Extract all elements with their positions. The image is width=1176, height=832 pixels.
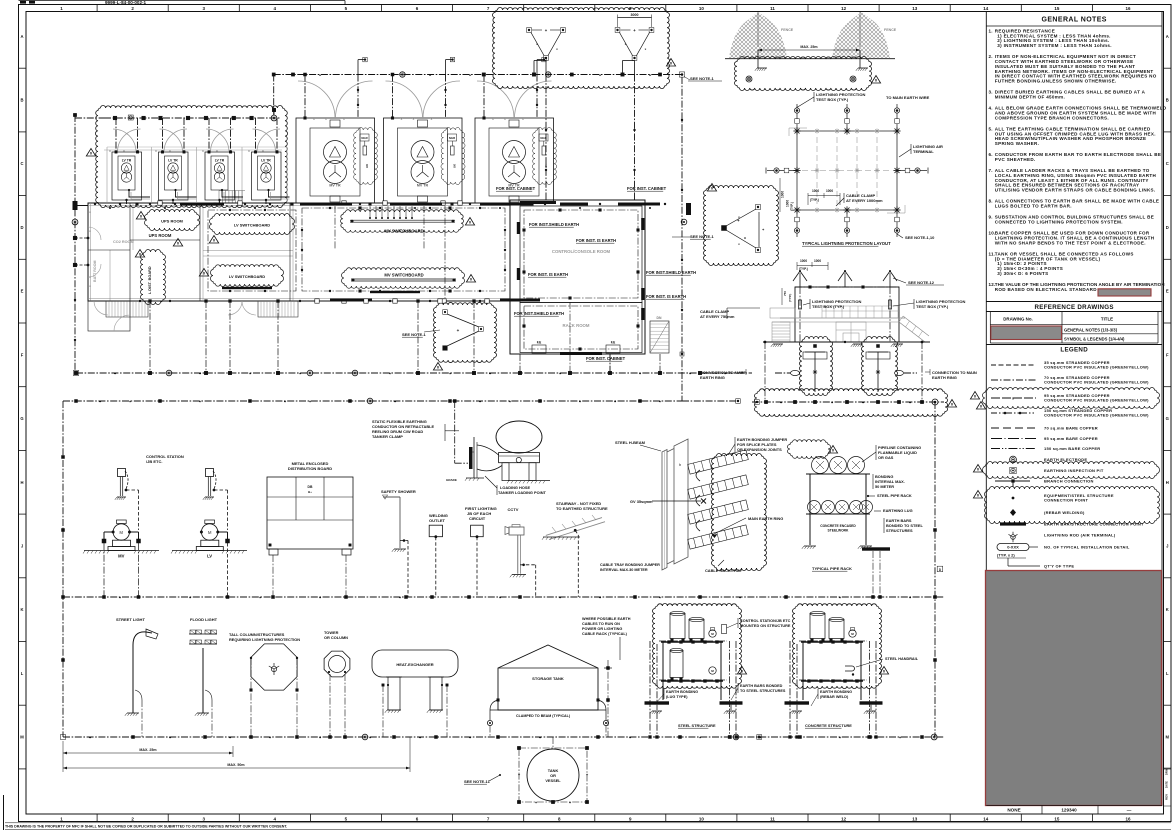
control building outline (510, 200, 645, 354)
svg-text:K: K (20, 607, 23, 612)
svg-text:G: G (1166, 416, 1169, 421)
wall connection dots top (94, 203, 96, 205)
elevation mid platform (780, 317, 905, 319)
structure vessel mid (670, 651, 683, 678)
svg-text:x: x (262, 149, 264, 153)
svg-text:NGR: NGR (449, 136, 455, 140)
svg-text:OR EXPANSION JOINTS: OR EXPANSION JOINTS (737, 447, 782, 452)
legend 70sqmm line (991, 379, 1036, 381)
structure down conductors (649, 641, 651, 737)
svg-text:13: 13 (912, 6, 918, 11)
svg-text:TYPICAL LIGHTNING PROTECTION L: TYPICAL LIGHTNING PROTECTION LAYOUT (802, 241, 891, 246)
svg-text:CONCRETE ENCASED: CONCRETE ENCASED (820, 524, 856, 528)
pipe rack upper tier (806, 473, 870, 475)
svg-text:E: E (1166, 289, 1169, 294)
lv bay cable hook (222, 190, 243, 197)
svg-text:FOR INST. CABINET: FOR INST. CABINET (496, 186, 536, 191)
tanker tank ellipse (496, 421, 542, 453)
structure posts (802, 642, 804, 700)
left riser earth bar (73, 201, 78, 210)
elevation footing cloud (800, 336, 833, 395)
svg-text:TEST BOX (TYP.): TEST BOX (TYP.) (812, 304, 845, 309)
fence earth cloud (735, 56, 872, 90)
upper earth ring above mv bays (274, 74, 682, 76)
svg-text:UPS ROOM: UPS ROOM (149, 233, 172, 238)
structure vessels top (810, 614, 825, 639)
svg-text:REV: REV (1165, 794, 1169, 800)
svg-text:H: H (20, 480, 23, 485)
svg-text:F.E: F.E (537, 341, 542, 345)
svg-text:TEST BOX (TYP.): TEST BOX (TYP.) (816, 97, 849, 102)
test box drop hook (634, 61, 636, 75)
svg-text:CIRCUIT: CIRCUIT (469, 516, 486, 521)
svg-text:F.E: F.E (611, 341, 616, 345)
svg-text:TERMINAL: TERMINAL (913, 149, 934, 154)
svg-text:EARTH BAR/STRUCTURE CONNECTION: EARTH BAR/STRUCTURE CONNECTION POINT (1044, 522, 1144, 527)
reference drawings header (986, 301, 1162, 303)
see note-1 cloud lower (434, 302, 497, 362)
legend equipment/steel structure connection point (985, 487, 1160, 524)
svg-text:1000: 1000 (814, 259, 821, 263)
top ruler band (96, 5, 98, 12)
svg-text:DATE: DATE (1165, 781, 1169, 788)
ngr earth jog (536, 60, 538, 75)
svg-text:CONCRETE STRUCTURE: CONCRETE STRUCTURE (805, 723, 852, 728)
svg-text:CONNECTION POINT: CONNECTION POINT (1044, 498, 1089, 503)
mv motor (117, 520, 127, 524)
structure cloud (653, 603, 742, 688)
rack room instrument earth loop (524, 306, 638, 349)
svg-text:REQUIRING LIGHTNING PROTECTION: REQUIRING LIGHTNING PROTECTION (229, 637, 300, 642)
svg-text:K: K (1166, 607, 1169, 612)
svg-text:TEST BOX (TYP.): TEST BOX (TYP.) (916, 304, 949, 309)
svg-text:CLAMPED TO BEAM (TYPICAL): CLAMPED TO BEAM (TYPICAL) (516, 714, 571, 718)
svg-text:x: x (123, 149, 125, 153)
svg-text:GRADE: GRADE (446, 478, 457, 482)
svg-text:QT'Y OF TYPE: QT'Y OF TYPE (1044, 564, 1074, 569)
general notes title (986, 25, 1162, 27)
legend earth electrode (1010, 456, 1017, 463)
svg-text:HEAT-EXCHANGER: HEAT-EXCHANGER (396, 662, 433, 667)
bottom ring cloud under elevation (755, 388, 948, 416)
svg-text:750: 750 (783, 291, 787, 296)
svg-text:TANKER LOADING POINT: TANKER LOADING POINT (498, 490, 547, 495)
svg-text:MINIMUM DEPTH OF 450mm.: MINIMUM DEPTH OF 450mm. (995, 94, 1065, 99)
svg-text:RACK ROOM: RACK ROOM (563, 323, 590, 328)
svg-text:REFERENCE DRAWINGS: REFERENCE DRAWINGS (1035, 304, 1114, 311)
svg-text:3) 30m< D: 6 POINTS: 3) 30m< D: 6 POINTS (997, 271, 1048, 276)
grid air terminals (793, 130, 800, 132)
svg-text:EARTHING LUG: EARTHING LUG (883, 508, 913, 513)
svg-text:MAIN EARTH RING: MAIN EARTH RING (748, 516, 783, 521)
lv bay cable hook (269, 190, 290, 197)
pipe rack earth bar (862, 547, 890, 550)
svg-text:11: 11 (770, 816, 775, 821)
storage tank (498, 645, 598, 710)
svg-text:CABLE RACK/TRAY: CABLE RACK/TRAY (705, 568, 742, 573)
lv bay cable hook (129, 190, 150, 197)
svg-text:CONDUCTOR PVC INSULATED (GREEN: CONDUCTOR PVC INSULATED (GREEN/YELLOW) (1044, 398, 1149, 403)
top-left drawing number box (19, 0, 346, 2)
svg-text:x: x (155, 149, 157, 153)
svg-text:MV TR: MV TR (329, 184, 341, 188)
svg-text:CONDUCTOR PVC INSULATED (GREEN: CONDUCTOR PVC INSULATED (GREEN/YELLOW) (1044, 365, 1149, 370)
left door arcs (88, 227, 101, 240)
svg-text:STEELWORK: STEELWORK (828, 529, 849, 533)
svg-text:x: x (1012, 397, 1014, 401)
svg-text:16: 16 (1125, 6, 1131, 11)
structure vessels top (670, 614, 685, 639)
middle band ring bottom y597 (63, 596, 944, 598)
svg-text:M: M (1166, 735, 1170, 740)
svg-text:CCTV: CCTV (508, 507, 519, 512)
legend 70sqmm bare copper (991, 427, 1036, 429)
svg-text:0-XXX: 0-XXX (1007, 545, 1019, 550)
svg-text:TYPICAL PIPE RACK: TYPICAL PIPE RACK (812, 566, 852, 571)
svg-text:A: A (1166, 34, 1169, 39)
storage tank clamps (490, 700, 498, 710)
svg-text:h: h (679, 463, 681, 467)
svg-text:(TYP.): (TYP.) (788, 294, 792, 302)
structure motor top (709, 630, 716, 637)
bottom property note (5, 822, 1171, 824)
svg-text:CONTROL/CONSOLE ROOM: CONTROL/CONSOLE ROOM (552, 249, 611, 254)
legend 150sqmm line (991, 412, 1036, 414)
svg-text:A: A (20, 34, 23, 39)
lv room earth loop (208, 210, 296, 291)
legend earthing inspection pit (983, 461, 1160, 478)
structure footings (645, 701, 670, 704)
svg-text:CABLE RACK (TYPICAL): CABLE RACK (TYPICAL) (582, 632, 628, 636)
lv motor (205, 520, 215, 524)
svg-text:MV SWITCHBOARD: MV SWITCHBOARD (384, 229, 423, 234)
svg-text:EARTH RING: EARTH RING (700, 375, 725, 380)
svg-text:STORAGE TANK: STORAGE TANK (532, 676, 564, 681)
svg-text:FOR INST. CABINET: FOR INST. CABINET (586, 356, 626, 361)
svg-text:1000: 1000 (800, 259, 807, 263)
lv transformer yard cloud (95, 105, 287, 207)
tanker chassis (499, 453, 540, 463)
svg-text:MAX. 50m: MAX. 50m (227, 763, 244, 767)
ngr earth jog (445, 60, 447, 75)
elevation test boxes (799, 300, 802, 309)
svg-text:EARTHING INSPECTION PIT: EARTHING INSPECTION PIT (1044, 468, 1104, 473)
reference drawings redacted cell (991, 326, 1062, 340)
elevation right handrail (899, 322, 925, 342)
mv motor earth hooks (112, 531, 115, 534)
legend 95sqmm line with cloud (983, 387, 1160, 408)
svg-text:x: x (492, 117, 494, 121)
svg-text:FLOOD LIGHT: FLOOD LIGHT (190, 617, 218, 622)
tanker ground (508, 480, 550, 482)
left vertical ring x63 (62, 401, 64, 737)
svg-text:FOR INST. IS EARTH: FOR INST. IS EARTH (576, 238, 616, 243)
structure down conductors (789, 641, 791, 737)
svg-text:LV TR: LV TR (168, 159, 178, 163)
right vertical ring x935 (934, 402, 936, 737)
tanker riser from ring (454, 401, 456, 463)
svg-text:DN: DN (657, 316, 662, 320)
lv cable risers to switchboard (369, 206, 371, 218)
svg-text:LV SWITCHBOARD: LV SWITCHBOARD (234, 223, 270, 228)
svg-text:x: x (248, 149, 250, 153)
svg-text:15: 15 (1054, 816, 1060, 821)
svg-text:CONDUCTOR PVC INSULATED (GREEN: CONDUCTOR PVC INSULATED (GREEN/YELLOW) (1044, 413, 1149, 418)
wall column markers (315, 299, 319, 303)
svg-text:(TYP.): (TYP.) (790, 202, 794, 211)
steel handrail symbol (845, 666, 855, 671)
control/console room (520, 206, 642, 303)
svg-text:STEEL HANDRAIL: STEEL HANDRAIL (885, 657, 919, 661)
tanker loading hoses (477, 445, 499, 455)
test box drop hook (545, 61, 547, 75)
svg-text:11: 11 (770, 6, 775, 11)
wall connection squares row (136, 203, 139, 206)
svg-text:GENERAL NOTES: GENERAL NOTES (1042, 17, 1107, 24)
svg-text:129340: 129340 (1061, 808, 1077, 813)
svg-text:(TYP. x 2): (TYP. x 2) (997, 553, 1015, 558)
structure motor mid (709, 667, 716, 674)
svg-text:OR GAS: OR GAS (878, 455, 894, 460)
legend earth bar connection point (1000, 522, 1026, 525)
svg-text:12: 12 (841, 816, 847, 821)
svg-text:4.: 4. (989, 106, 993, 111)
svg-text:POWER OR LIGHTING: POWER OR LIGHTING (582, 627, 622, 631)
svg-text:2.: 2. (989, 54, 993, 59)
svg-text:1.: 1. (989, 29, 993, 34)
svg-text:LV TR: LV TR (261, 159, 271, 163)
svg-text:x: x (343, 117, 345, 121)
tanker legs (502, 463, 509, 481)
inside verticals from mv bays to switchboards (334, 206, 336, 250)
control building F.E boxes (532, 345, 546, 353)
svg-text:LIGHTNING ROD (AIR TERMINAL): LIGHTNING ROD (AIR TERMINAL) (1044, 533, 1116, 538)
svg-text:SPRING WASHER.: SPRING WASHER. (995, 141, 1039, 146)
legend rebar welding diamond (1010, 509, 1016, 516)
cable rack trays (688, 450, 749, 474)
svg-text:GV 35sqmm: GV 35sqmm (630, 499, 653, 504)
svg-text:8.: 8. (989, 199, 993, 204)
lv motor earth hooks (200, 531, 203, 534)
svg-text:/JB ETC.: /JB ETC. (146, 459, 162, 464)
svg-text:1000: 1000 (786, 200, 790, 207)
substation entrance (88, 301, 130, 331)
legend branch connection (995, 480, 1030, 482)
svg-text:(TYP.): (TYP.) (810, 198, 819, 202)
test box dimension 3000 (618, 17, 652, 19)
svg-text:CONTROL STATION/JB ETC: CONTROL STATION/JB ETC (740, 619, 791, 623)
svg-text:15: 15 (1054, 6, 1060, 11)
svg-text:EARTH BONDING: EARTH BONDING (820, 690, 852, 694)
legend 150sqmm bare copper (991, 448, 1036, 450)
structure motor top (849, 630, 856, 637)
triangles right of middle band (973, 465, 982, 473)
right vertical earth riser x682 (681, 77, 683, 401)
substation building outline (88, 203, 510, 301)
svg-text:CABLES TO RUN ON: CABLES TO RUN ON (582, 622, 620, 626)
heat exchanger (372, 650, 458, 677)
mv motor ground line (84, 550, 159, 552)
svg-text:FOR INST. IS EARTH: FOR INST. IS EARTH (646, 294, 686, 299)
svg-text:3000: 3000 (631, 13, 639, 17)
structure beams (661, 641, 723, 643)
small cloud by jumper label (788, 439, 831, 458)
mv switchboard cloud 1 (340, 209, 463, 232)
svg-text:STRUCTURES: STRUCTURES (886, 528, 913, 533)
svg-text:10: 10 (699, 6, 705, 11)
lv transformer bays (112, 152, 142, 200)
mv room earth loop (302, 208, 505, 291)
elevation left stair (770, 308, 795, 318)
svg-text:GENERAL NOTES (1/3-3/3): GENERAL NOTES (1/3-3/3) (1064, 328, 1118, 333)
svg-text:B: B (1166, 98, 1169, 103)
svg-text:x: x (109, 149, 111, 153)
grid terminal connections sides (789, 170, 797, 172)
svg-text:TO STEEL STRUCTURES: TO STEEL STRUCTURES (740, 689, 786, 693)
svg-text:DRW: DRW (1165, 768, 1169, 775)
svg-text:SEE NOTE-1: SEE NOTE-1 (690, 76, 715, 81)
lv yard cable fan (218, 191, 220, 203)
svg-text:H: H (1166, 480, 1169, 485)
extra wall column markers (342, 201, 346, 205)
structure posts (662, 642, 664, 700)
legend header (986, 344, 1162, 346)
lightning protection test box cloud top (492, 7, 669, 88)
svg-text:5.: 5. (989, 126, 993, 131)
svg-text:MV TR: MV TR (417, 184, 429, 188)
structure cloud (793, 603, 882, 688)
svg-text:LV SWITCHBOARD: LV SWITCHBOARD (229, 274, 265, 279)
svg-text:BRANCH CONNECTION: BRANCH CONNECTION (1044, 479, 1094, 484)
svg-text:L DIST. BOARD: L DIST. BOARD (148, 266, 152, 294)
svg-text:3.: 3. (989, 90, 993, 95)
svg-text:13: 13 (912, 816, 918, 821)
svg-text:FOR INST. IS EARTH: FOR INST. IS EARTH (528, 272, 568, 277)
svg-text:14: 14 (983, 816, 989, 821)
svg-text:EARTH RING: EARTH RING (932, 375, 957, 380)
svg-text:SEE NOTE-1,10: SEE NOTE-1,10 (905, 235, 935, 240)
ring y737 extra nodes structures (649, 736, 652, 739)
elevation roof ring (795, 286, 899, 288)
svg-text:WITH NO SHARP BENDS TO THE TES: WITH NO SHARP BENDS TO THE TEST POINT & … (995, 240, 1146, 245)
busbars along walls various (330, 299, 372, 302)
bottom ring line under elevation (752, 401, 944, 403)
lv yard earth ring (104, 117, 281, 119)
svg-text:LEGEND: LEGEND (1060, 347, 1088, 354)
svg-text:VESSEL: VESSEL (545, 778, 561, 783)
pipe rack posts (809, 474, 811, 545)
dim max 25m bottom (63, 752, 233, 754)
cable rack cloud (712, 454, 767, 571)
elevation railing (825, 306, 827, 318)
svg-text:INTERVAL MAX.30 METER: INTERVAL MAX.30 METER (600, 568, 648, 572)
lv yard bay partitions (106, 147, 108, 202)
svg-text:FENCE: FENCE (781, 28, 794, 32)
grid terminal connections bottom (796, 210, 798, 217)
note 12 highlighted box (1098, 289, 1151, 296)
control room instrument earth loop (524, 210, 638, 298)
svg-text:ROD BASED ON ELECTRICAL STANDA: ROD BASED ON ELECTRICAL STANDARD (995, 287, 1097, 292)
svg-text:C: C (1166, 161, 1169, 166)
elevation lightning masts (799, 273, 801, 287)
substation interior walls (129, 203, 131, 301)
legend 95sqmm bare copper (991, 438, 1036, 440)
svg-text:70 sq.mm BARE COPPER: 70 sq.mm BARE COPPER (1044, 426, 1098, 431)
svg-text:AT EVERY 1000mm: AT EVERY 1000mm (846, 198, 883, 203)
lv switchboard cloud 2 (211, 264, 284, 286)
svg-text:NGR: NGR (361, 136, 367, 140)
small bonding details left of structures (607, 667, 610, 670)
svg-text:x: x (169, 149, 171, 153)
elevation center structure (836, 322, 866, 342)
svg-text:STEEL PIPE RACK: STEEL PIPE RACK (877, 493, 912, 498)
svg-text:14: 14 (983, 6, 989, 11)
svg-text:16: 16 (1125, 816, 1131, 821)
svg-text:3) INSTRUMENT SYSTEM : LESS T: 3) INSTRUMENT SYSTEM : LESS THAN 1ohms. (997, 43, 1112, 48)
svg-text:1000: 1000 (826, 189, 833, 193)
rack room (520, 303, 642, 353)
svg-text:(LUG TYPE): (LUG TYPE) (666, 695, 688, 699)
dim max 50m bottom (63, 767, 410, 769)
lv switchboard cloud 1 (210, 214, 295, 235)
ngr resistor (360, 134, 369, 141)
left riser circle-x node (72, 219, 78, 225)
svg-text:x: x (401, 117, 403, 121)
svg-text:x: x (431, 117, 433, 121)
mv switchboard cloud 2 (342, 267, 465, 288)
yard ring x marks (104, 149, 282, 151)
svg-text:THIS DRAWING IS THE PROPERTY O: THIS DRAWING IS THE PROPERTY OF MFC IF S… (5, 825, 287, 829)
svg-text:CO2 ROOM: CO2 ROOM (113, 240, 134, 244)
svg-text:EARTH BONDING: EARTH BONDING (666, 690, 698, 694)
svg-text:M: M (119, 530, 123, 535)
svg-text:F: F (21, 352, 24, 357)
elevation ground line (763, 341, 930, 343)
see note-1 label top (666, 59, 675, 67)
elevation down conductors (799, 287, 801, 342)
legend 35sqmm line (991, 364, 1036, 366)
pipe rack lower tier (806, 513, 870, 515)
svg-text:TO EARTHED STRUCTURE: TO EARTHED STRUCTURE (556, 506, 608, 511)
svg-text:TO MAIN EARTH WIRE: TO MAIN EARTH WIRE (886, 95, 930, 100)
svg-text:FOR INST.SHIELD EARTH: FOR INST.SHIELD EARTH (514, 311, 564, 316)
svg-text:TITLE: TITLE (1101, 317, 1113, 322)
svg-text:STREET LIGHT: STREET LIGHT (116, 617, 145, 622)
svg-text:M: M (208, 530, 212, 535)
svg-text:C: C (20, 161, 23, 166)
svg-text:EARTH BARS BONDED: EARTH BARS BONDED (740, 684, 783, 688)
busbars along substation top wall (180, 203, 224, 206)
svg-text:LV: LV (207, 554, 212, 559)
risers substation to ring (149, 301, 151, 373)
svg-text:CONNECTED TO LIGHTNING PROTECT: CONNECTED TO LIGHTNING PROTECTION SYSTEM… (995, 220, 1123, 225)
svg-text:L: L (21, 671, 24, 676)
svg-text:9999-L-84-00-002-1: 9999-L-84-00-002-1 (105, 0, 147, 5)
left riser stubs (73, 236, 77, 240)
middle band ring top y401 (63, 400, 682, 402)
svg-text:95 sq.mm BARE COPPER: 95 sq.mm BARE COPPER (1044, 436, 1098, 441)
svg-text:MV: MV (118, 554, 124, 559)
lv motor ground line (172, 550, 247, 552)
general notes panel box (986, 12, 1162, 806)
fence dim max 25m (758, 49, 860, 51)
svg-text:—: — (1127, 808, 1132, 813)
svg-text:6.: 6. (989, 152, 993, 157)
svg-text:SYMBOL & LEGENDS (1/4-4/4): SYMBOL & LEGENDS (1/4-4/4) (1064, 336, 1125, 341)
mv transformer bays (296, 118, 375, 203)
svg-text:MOUNTED ON STRUCTURE: MOUNTED ON STRUCTURE (740, 624, 791, 628)
reference drawings table (989, 312, 991, 344)
